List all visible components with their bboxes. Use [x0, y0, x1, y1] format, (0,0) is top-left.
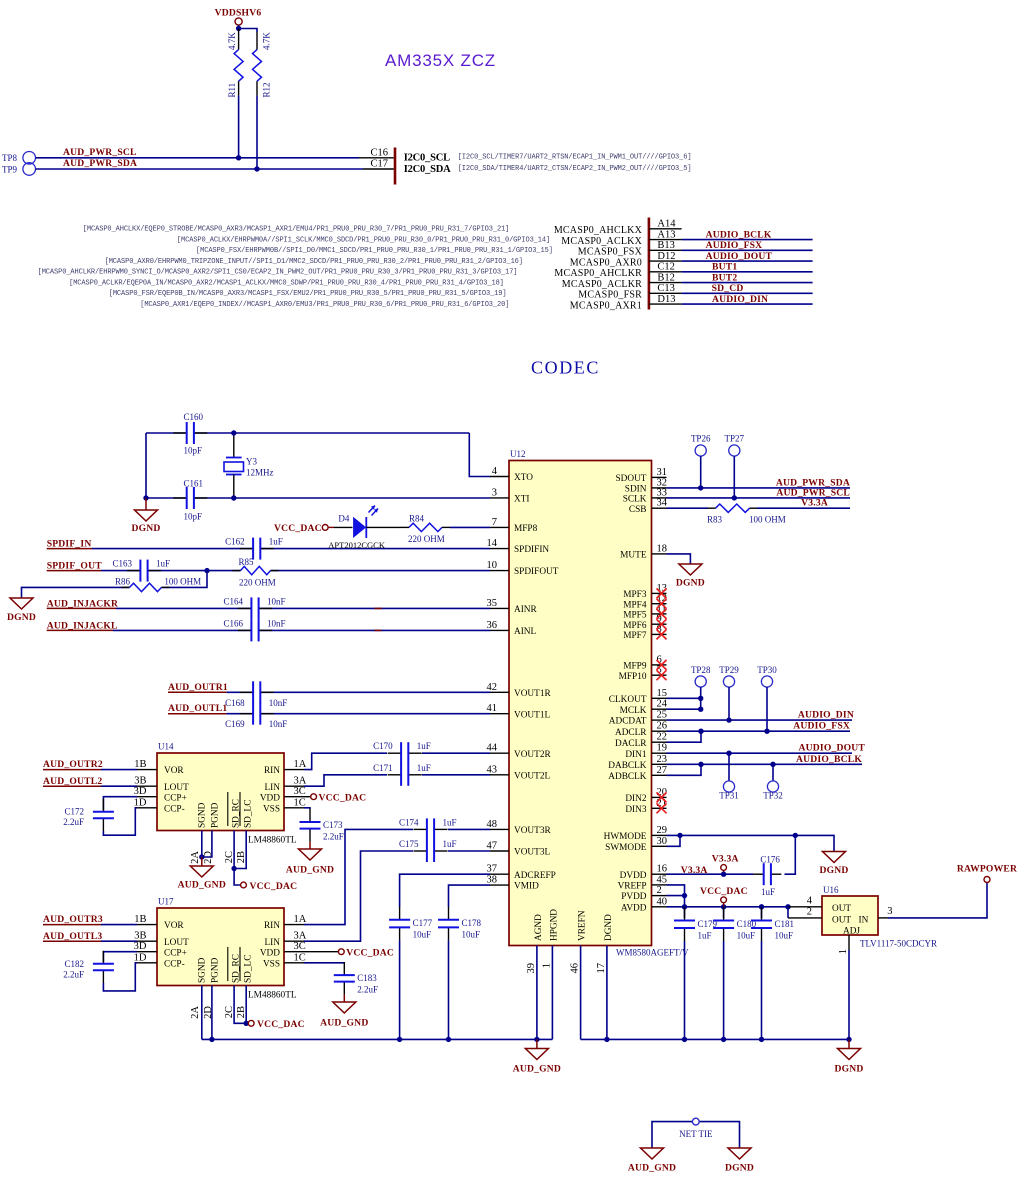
- wire U14 2C 2B to VCC_DAC: [233, 831, 235, 869]
- svg-text:220 OHM: 220 OHM: [239, 577, 276, 587]
- svg-text:C161: C161: [184, 479, 204, 489]
- power circle VCC_DAC: [322, 525, 328, 531]
- ground DGND crystal: [145, 498, 147, 510]
- wire AUD_GND bottom rail: [202, 1038, 553, 1040]
- svg-text:DACLR: DACLR: [615, 739, 647, 749]
- svg-text:10: 10: [487, 560, 498, 571]
- svg-text:1B: 1B: [134, 914, 146, 925]
- svg-text:AUDIO_BCLK: AUDIO_BCLK: [796, 754, 862, 765]
- svg-text:30: 30: [657, 836, 668, 847]
- svg-text:ADBCLK: ADBCLK: [608, 772, 647, 782]
- svg-text:MPF7: MPF7: [623, 631, 647, 641]
- wire AUD_PWR_SDA: [36, 168, 364, 170]
- capacitor C162 1uF: [253, 547, 260, 551]
- svg-text:AUDIO_DIN: AUDIO_DIN: [798, 710, 854, 721]
- svg-text:CODEC: CODEC: [531, 358, 600, 378]
- svg-text:C17: C17: [370, 159, 388, 170]
- junction Y3 top: [231, 430, 236, 435]
- wire ADCDAT net AUDIO_DIN: [667, 719, 853, 721]
- wire AGND HPGND to AUD_GND rail: [536, 946, 538, 1040]
- wire C171 to VOUT2L: [422, 774, 490, 776]
- svg-text:AUDIO_FSX: AUDIO_FSX: [706, 240, 763, 251]
- wire VMID to C178: [449, 885, 491, 907]
- wire TP28 to CLKOUT MCLK: [700, 687, 702, 709]
- svg-text:MUTE: MUTE: [620, 551, 647, 561]
- svg-text:AUD_GND: AUD_GND: [628, 1163, 676, 1174]
- wire ADCREFP to C177: [400, 874, 490, 907]
- wire DVDD V3.3A: [667, 873, 754, 875]
- svg-text:TP8: TP8: [2, 153, 18, 163]
- ground DGND R86: [10, 598, 33, 609]
- svg-text:VSS: VSS: [263, 804, 280, 814]
- junction rail C179: [682, 1037, 687, 1042]
- svg-text:23: 23: [657, 754, 668, 765]
- svg-text:CCP-: CCP-: [164, 804, 185, 814]
- svg-text:BUT1: BUT1: [712, 262, 737, 273]
- svg-text:AUDIO_DIN: AUDIO_DIN: [712, 294, 768, 305]
- wire VREFN DGND pins to rail: [580, 946, 582, 1040]
- svg-text:DGND: DGND: [676, 578, 705, 589]
- junction TP32: [770, 762, 775, 767]
- svg-text:B12: B12: [657, 272, 675, 283]
- wire AUD_OUTR2: [101, 769, 137, 771]
- junction rail C181: [759, 1037, 764, 1042]
- wire VSS to C173: [304, 808, 310, 809]
- svg-text:VOUT2L: VOUT2L: [514, 771, 550, 781]
- wire SPDIF_OUT: [101, 570, 490, 572]
- svg-text:100 OHM: 100 OHM: [749, 515, 786, 525]
- U16 pin 3 wire to RAWPOWER: [878, 917, 888, 919]
- svg-text:DGND: DGND: [131, 523, 160, 534]
- test point TP31: [723, 781, 734, 792]
- svg-text:45: 45: [657, 874, 668, 885]
- capacitor C180 10uF: [723, 907, 725, 918]
- svg-text:4.7K: 4.7K: [261, 32, 271, 50]
- svg-text:AGND: AGND: [534, 914, 544, 941]
- svg-text:42: 42: [487, 682, 498, 693]
- svg-text:MFP10: MFP10: [619, 672, 647, 682]
- wire VSS U17 to C183: [304, 962, 344, 964]
- svg-text:DGND: DGND: [834, 1064, 863, 1075]
- ground AUD_GND bottom: [536, 1039, 538, 1048]
- svg-text:2C: 2C: [224, 851, 235, 863]
- svg-text:VOUT1R: VOUT1R: [514, 689, 551, 699]
- svg-text:C173: C173: [323, 820, 343, 830]
- svg-text:BUT2: BUT2: [712, 272, 737, 283]
- capacitor C170 1uF: [401, 751, 408, 755]
- svg-text:TP32: TP32: [763, 791, 783, 801]
- svg-text:36: 36: [487, 620, 498, 631]
- wire C175 to VOUT3L: [448, 850, 490, 852]
- ground AUD_GND U14: [201, 857, 203, 866]
- svg-text:10pF: 10pF: [184, 446, 203, 456]
- junction U14 gnd: [199, 854, 204, 859]
- svg-text:[MCASP0_AXR0/EHRPWM0_TRIPZONE_: [MCASP0_AXR0/EHRPWM0_TRIPZONE_INPUT//SPI…: [105, 258, 523, 266]
- IC U12 WM8580 body: [509, 461, 652, 946]
- svg-text:C172: C172: [64, 807, 84, 817]
- capacitor C163 1uF: [140, 569, 147, 573]
- svg-text:DGND: DGND: [819, 865, 848, 876]
- wire MCLK: [667, 708, 701, 710]
- svg-text:U12: U12: [510, 449, 526, 459]
- svg-text:19: 19: [657, 743, 668, 754]
- svg-text:AUD_GND: AUD_GND: [513, 1064, 561, 1075]
- svg-text:27: 27: [657, 765, 668, 776]
- svg-text:AUD_PWR_SCL: AUD_PWR_SCL: [63, 147, 137, 158]
- capacitor C175 1uF: [427, 849, 434, 853]
- svg-text:4: 4: [492, 466, 498, 477]
- svg-text:C183: C183: [357, 973, 377, 983]
- wire SWMODE join: [667, 835, 681, 846]
- wire R84 to MFP8: [450, 526, 490, 528]
- svg-text:RIN: RIN: [264, 766, 280, 776]
- svg-text:C178: C178: [462, 918, 482, 928]
- svg-text:TP29: TP29: [719, 665, 739, 675]
- junction SPDIF_OUT/R86: [204, 568, 209, 573]
- ground AUD_GND C183: [343, 995, 345, 1002]
- wire MUTE to DGND: [667, 554, 691, 564]
- svg-text:1uF: 1uF: [443, 839, 457, 849]
- svg-text:48: 48: [487, 819, 498, 830]
- svg-text:16: 16: [657, 864, 668, 875]
- svg-text:1uF: 1uF: [156, 559, 170, 569]
- wire CSB to R83: [667, 507, 709, 509]
- svg-text:1: 1: [541, 963, 552, 968]
- junction PVDD: [682, 893, 687, 898]
- ground DGND bottom: [848, 1039, 850, 1048]
- svg-text:SWMODE: SWMODE: [605, 843, 647, 853]
- svg-text:C174: C174: [399, 817, 419, 827]
- wire C170 to VOUT2R: [422, 752, 490, 754]
- svg-text:10uF: 10uF: [413, 930, 432, 940]
- U16 ADJ pin wire: [848, 935, 850, 950]
- svg-text:[I2C0_SDA/TIMER4/UART2_CTSN/EC: [I2C0_SDA/TIMER4/UART2_CTSN/ECAP2_IN_PWM…: [458, 165, 692, 173]
- wire XTI net bottom rail: [146, 497, 490, 499]
- svg-text:10nF: 10nF: [269, 698, 288, 708]
- svg-text:C177: C177: [413, 918, 433, 928]
- ground AUD_GND C173: [309, 842, 311, 849]
- svg-text:1C: 1C: [294, 797, 306, 808]
- svg-text:VOUT1L: VOUT1L: [514, 710, 550, 720]
- svg-text:1uF: 1uF: [417, 741, 431, 751]
- svg-text:MCASP0_FSR: MCASP0_FSR: [578, 290, 642, 301]
- svg-text:TP28: TP28: [691, 665, 711, 675]
- wire LIN to C171 row: [304, 775, 387, 786]
- svg-text:3: 3: [887, 906, 892, 917]
- wire C174 to VOUT3R: [448, 828, 490, 830]
- svg-text:CCP-: CCP-: [164, 959, 185, 969]
- svg-text:CLKOUT: CLKOUT: [609, 695, 647, 705]
- junction U17 2C2B: [244, 1021, 249, 1026]
- svg-text:10uF: 10uF: [775, 930, 794, 940]
- svg-text:35: 35: [487, 598, 498, 609]
- svg-text:2.2uF: 2.2uF: [63, 969, 84, 979]
- resistor R12 4.7K: [256, 32, 258, 50]
- svg-text:[MCASP0_ACLKX/EHRPWM0A//SPI1_S: [MCASP0_ACLKX/EHRPWM0A//SPI1_SCLK/MMC0_S…: [177, 236, 550, 244]
- svg-text:DIN2: DIN2: [625, 794, 647, 804]
- svg-text:TP30: TP30: [757, 665, 777, 675]
- svg-text:3B: 3B: [134, 776, 146, 787]
- junction SWMODE: [677, 833, 682, 838]
- svg-text:AINR: AINR: [514, 605, 538, 615]
- svg-text:OUT: OUT: [832, 915, 851, 925]
- svg-text:1D: 1D: [134, 797, 147, 808]
- junction C176 right: [793, 833, 798, 838]
- svg-text:[MCASP0_AHCLKR/EHRPWM0_SYNCI_O: [MCASP0_AHCLKR/EHRPWM0_SYNCI_O/MCASP0_AX…: [38, 269, 518, 277]
- svg-text:2: 2: [657, 885, 662, 896]
- wire CCP+ to C172: [103, 797, 137, 810]
- svg-text:3C: 3C: [294, 786, 306, 797]
- crystal Y3 12MHz: [233, 433, 235, 457]
- svg-text:D13: D13: [657, 294, 675, 305]
- svg-text:AUDIO_BCLK: AUDIO_BCLK: [706, 229, 772, 240]
- svg-text:DVDD: DVDD: [620, 871, 647, 881]
- resistor R84 220 OHM: [409, 522, 442, 532]
- junction TP26: [698, 485, 703, 490]
- svg-text:D12: D12: [657, 251, 675, 262]
- svg-text:10nF: 10nF: [267, 618, 286, 628]
- svg-text:LOUT: LOUT: [164, 938, 189, 948]
- svg-text:AUD_OUTL3: AUD_OUTL3: [43, 931, 102, 942]
- svg-text:18: 18: [657, 543, 668, 554]
- svg-text:HWMODE: HWMODE: [604, 832, 647, 842]
- svg-text:C171: C171: [373, 763, 393, 773]
- junction AVDD-U16: [785, 904, 790, 909]
- svg-text:C176: C176: [760, 855, 780, 865]
- wire SDIN net AUD_PWR_SDA: [667, 487, 851, 489]
- svg-text:2B: 2B: [236, 1006, 247, 1018]
- svg-text:AINL: AINL: [514, 627, 537, 637]
- svg-text:1uF: 1uF: [417, 763, 431, 773]
- svg-text:DGND: DGND: [725, 1163, 754, 1174]
- svg-text:4: 4: [807, 895, 813, 906]
- svg-text:2: 2: [807, 907, 812, 918]
- capacitor C166 10nF: [251, 628, 258, 632]
- svg-text:1A: 1A: [294, 759, 307, 770]
- svg-text:SPDIFOUT: SPDIFOUT: [514, 567, 559, 577]
- wire AUD_PWR_SCL: [36, 157, 360, 159]
- svg-text:15: 15: [657, 688, 668, 699]
- svg-text:3D: 3D: [134, 941, 147, 952]
- svg-text:41: 41: [487, 703, 498, 714]
- junction MCLK: [698, 707, 703, 712]
- capacitor C164 10nF: [251, 606, 258, 610]
- wire AUD_OUTL1: [226, 713, 490, 715]
- junction rail C180: [721, 1037, 726, 1042]
- svg-text:AVDD: AVDD: [621, 903, 647, 913]
- svg-text:SCLK: SCLK: [623, 495, 647, 505]
- svg-text:29: 29: [657, 825, 668, 836]
- wire CCP+ to C182: [103, 952, 137, 962]
- svg-text:AUDIO_DOUT: AUDIO_DOUT: [706, 251, 773, 262]
- svg-text:NET TIE: NET TIE: [679, 1129, 713, 1139]
- svg-text:[MCASP0_FSR/EQEP0B_IN/MCASP0_A: [MCASP0_FSR/EQEP0B_IN/MCASP0_AXR3/MCASP1…: [109, 290, 507, 298]
- wire ADBCLK to DABCLK: [667, 764, 702, 775]
- junction TP27: [732, 495, 737, 500]
- svg-text:1uF: 1uF: [269, 537, 283, 547]
- svg-text:C181: C181: [775, 919, 795, 929]
- junction AVDD-684: [682, 904, 687, 909]
- svg-text:R84: R84: [409, 514, 425, 524]
- capacitor C174 1uF: [427, 827, 434, 831]
- wire HWMODE to DGND: [667, 835, 835, 851]
- svg-text:R12: R12: [261, 82, 271, 97]
- svg-text:VCC_DAC: VCC_DAC: [700, 886, 748, 897]
- svg-text:C182: C182: [64, 959, 84, 969]
- test point TP29: [723, 676, 734, 687]
- junction DABCLK tie: [698, 762, 703, 767]
- capacitor C178 10uF: [447, 920, 451, 928]
- svg-text:TP9: TP9: [2, 164, 18, 174]
- svg-text:1C: 1C: [294, 952, 306, 963]
- svg-text:2.2uF: 2.2uF: [323, 831, 344, 841]
- junction AVDD-VCCDAC: [721, 904, 726, 909]
- capacitor C179 1uF: [684, 907, 686, 918]
- svg-text:MPF6: MPF6: [623, 621, 647, 631]
- svg-text:1B: 1B: [134, 759, 146, 770]
- resistor R86 100 OHM: [130, 582, 162, 592]
- ground DGND MUTE: [679, 564, 702, 575]
- wire TP30 to ADCLR: [766, 687, 768, 731]
- wire AUD_OUTR3: [101, 924, 137, 926]
- svg-text:MPF3: MPF3: [623, 590, 647, 600]
- junction rail U16 ADJ: [846, 1037, 851, 1042]
- svg-text:[MCASP0_ACLKR/EQEP0A_IN/MCASP0: [MCASP0_ACLKR/EQEP0A_IN/MCASP0_AXR2/MCAS…: [69, 279, 504, 287]
- wire R12 to SDA: [256, 96, 258, 169]
- svg-text:PGND: PGND: [210, 957, 220, 983]
- svg-text:VOR: VOR: [164, 921, 184, 931]
- svg-text:D4: D4: [338, 514, 349, 524]
- svg-text:AM335X ZCZ: AM335X ZCZ: [385, 51, 496, 70]
- svg-text:C169: C169: [225, 719, 245, 729]
- svg-text:CCP+: CCP+: [164, 793, 187, 803]
- junction V3.3A: [721, 872, 726, 877]
- svg-text:MPF4: MPF4: [623, 600, 647, 610]
- capacitor C177 10uF: [398, 920, 402, 928]
- svg-text:SGND: SGND: [198, 957, 208, 983]
- net tie wire: [652, 1122, 740, 1148]
- junction rail C178: [446, 1037, 451, 1042]
- junction DACLR tie: [698, 729, 703, 734]
- svg-text:AUD_GND: AUD_GND: [286, 865, 334, 876]
- svg-text:CCP+: CCP+: [164, 948, 187, 958]
- svg-text:VMID: VMID: [514, 882, 539, 892]
- svg-text:1uF: 1uF: [698, 930, 712, 940]
- svg-text:AUDIO_DOUT: AUDIO_DOUT: [799, 743, 866, 754]
- svg-text:12MHz: 12MHz: [246, 468, 274, 478]
- svg-text:38: 38: [487, 875, 498, 886]
- op-amp U14 LM48860TL: [157, 753, 284, 831]
- svg-text:DIN3: DIN3: [625, 805, 647, 815]
- svg-text:DIN1: DIN1: [625, 750, 647, 760]
- svg-text:LM48860TL: LM48860TL: [248, 991, 297, 1001]
- op-amp U17 LM48860TL: [157, 908, 284, 986]
- svg-text:[MCASP0_AXR1/EQEP0_INDEX//MCAS: [MCASP0_AXR1/EQEP0_INDEX//MCASP1_AXR0/EM…: [140, 301, 509, 309]
- U16 pin 4: [788, 906, 822, 908]
- svg-text:TP27: TP27: [725, 434, 745, 444]
- svg-text:VOUT3R: VOUT3R: [514, 826, 551, 836]
- svg-text:AUD_GND: AUD_GND: [178, 880, 226, 891]
- svg-text:VCC_DAC: VCC_DAC: [346, 948, 394, 959]
- svg-text:2C: 2C: [224, 1006, 235, 1018]
- svg-text:C12: C12: [657, 262, 675, 273]
- wire TP26 to SDIN: [700, 456, 702, 488]
- wire TP32 stem: [772, 764, 774, 781]
- wire CLKOUT: [667, 697, 701, 699]
- junction Y3 bottom: [231, 495, 236, 500]
- power circle VCC_DAC U14 bottom: [241, 882, 247, 888]
- svg-text:RAWPOWER: RAWPOWER: [957, 864, 1018, 875]
- svg-text:2A: 2A: [190, 1006, 201, 1019]
- svg-text:R83: R83: [707, 515, 723, 525]
- capacitor C168 10nF: [253, 690, 260, 694]
- svg-text:SGND: SGND: [198, 802, 208, 828]
- svg-text:C168: C168: [225, 698, 245, 708]
- svg-text:220 OHM: 220 OHM: [408, 534, 445, 544]
- svg-text:RIN: RIN: [264, 921, 280, 931]
- wire R83 to V3.3A: [757, 507, 850, 509]
- svg-text:10uF: 10uF: [462, 930, 481, 940]
- svg-text:7: 7: [492, 517, 497, 528]
- svg-text:C166: C166: [223, 618, 243, 628]
- svg-text:AUD_OUTL1: AUD_OUTL1: [168, 703, 227, 714]
- wire TP29 to ADCDAT: [728, 687, 730, 720]
- svg-text:VCC_DAC: VCC_DAC: [257, 1019, 305, 1030]
- svg-text:ADCREFP: ADCREFP: [514, 871, 556, 881]
- svg-text:2.2uF: 2.2uF: [357, 984, 378, 994]
- wire U17 SGND PGND to rail: [201, 986, 203, 1040]
- svg-text:VREFN: VREFN: [578, 910, 588, 941]
- wire AUD_OUTL3: [101, 940, 137, 942]
- svg-text:1D: 1D: [134, 952, 147, 963]
- svg-text:1uF: 1uF: [443, 817, 457, 827]
- svg-text:3A: 3A: [294, 931, 307, 942]
- svg-text:AUD_OUTL2: AUD_OUTL2: [43, 776, 102, 787]
- svg-text:AUD_PWR_SDA: AUD_PWR_SDA: [63, 158, 137, 169]
- svg-text:3D: 3D: [134, 786, 147, 797]
- svg-text:TP31: TP31: [719, 791, 739, 801]
- svg-text:40: 40: [657, 896, 668, 907]
- wire AUD_OUTL2: [101, 785, 137, 787]
- svg-text:46: 46: [570, 963, 581, 974]
- wire RIN to C170 row: [304, 753, 387, 769]
- wire R86 to DGND: [22, 571, 208, 598]
- svg-text:U16: U16: [823, 885, 839, 895]
- svg-text:10uF: 10uF: [737, 930, 756, 940]
- svg-text:SDOUT: SDOUT: [616, 474, 647, 484]
- svg-text:SDIN: SDIN: [625, 485, 647, 495]
- capacitor C169 10nF: [253, 712, 260, 716]
- wire XTO net top rail: [146, 432, 469, 434]
- test point TP27: [729, 445, 740, 456]
- wire LED to R84: [366, 526, 401, 528]
- svg-text:100 OHM: 100 OHM: [164, 577, 201, 587]
- svg-text:VOUT2R: VOUT2R: [514, 750, 551, 760]
- wire C178 to AUD_GND rail: [448, 940, 450, 1039]
- ground DGND net tie: [728, 1148, 751, 1159]
- wire C182 to CCP-: [103, 963, 137, 991]
- net tie mark AINL: [375, 629, 382, 631]
- junction rail AGND: [534, 1037, 539, 1042]
- capacitor C173 2.2uF: [308, 822, 312, 829]
- junction U14 2C2B: [231, 866, 236, 871]
- svg-text:WM8580AGEFT/V: WM8580AGEFT/V: [616, 948, 689, 958]
- svg-text:SD_CD: SD_CD: [712, 283, 744, 294]
- svg-text:R85: R85: [239, 557, 255, 567]
- svg-text:APT2012CGCK: APT2012CGCK: [328, 540, 386, 550]
- svg-text:3C: 3C: [294, 941, 306, 952]
- svg-text:31: 31: [657, 467, 668, 478]
